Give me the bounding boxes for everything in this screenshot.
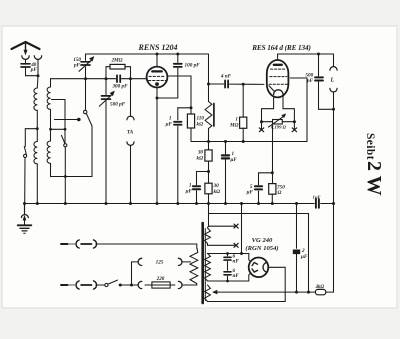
fuse 220V	[138, 281, 197, 288]
svg-text:TA: TA	[127, 130, 134, 136]
wire 30k mid	[208, 161, 210, 183]
wire TA to bus	[130, 146, 132, 204]
node speaker line	[332, 108, 335, 111]
wire anode 2	[249, 273, 251, 281]
capacitor 5uF	[255, 186, 262, 203]
svg-text:kΩ: kΩ	[197, 156, 204, 162]
terminal X left	[259, 122, 263, 132]
node elcap/141	[224, 140, 227, 143]
svg-text:(RGN 1054): (RGN 1054)	[245, 245, 278, 252]
node link	[64, 128, 67, 131]
node grid leak top	[242, 83, 245, 86]
jack TA upper	[127, 116, 134, 120]
wire coil B bottom	[51, 163, 93, 176]
wire HT line y213	[208, 204, 210, 227]
switch S2	[61, 135, 67, 203]
switch S3	[84, 110, 93, 176]
jack TA lower	[127, 142, 134, 146]
svg-text:2MΩ: 2MΩ	[110, 58, 122, 64]
wire top rail right	[278, 53, 334, 55]
svg-text:MΩ: MΩ	[229, 123, 239, 129]
wire grid-line top of coil B	[50, 79, 52, 87]
wire choke to 30k	[208, 129, 210, 150]
jack speaker upper	[330, 67, 337, 71]
coil L2a	[47, 87, 50, 109]
tube VG240 rectifier	[249, 258, 269, 278]
wire coil B mid	[50, 109, 52, 141]
filament leg left	[262, 96, 274, 122]
wire coil A mid	[36, 110, 38, 141]
svg-text:4 nF: 4 nF	[220, 74, 232, 80]
wire bus	[25, 203, 315, 205]
transformer rectifier winding	[205, 285, 286, 302]
svg-text:1μF: 1μF	[313, 195, 321, 200]
capacitor 150pF trimmer	[79, 54, 94, 79]
node bus right	[332, 202, 335, 205]
ground	[18, 204, 32, 234]
svg-text:RENS 1204: RENS 1204	[138, 43, 178, 52]
switch S1	[24, 147, 27, 204]
node jack2/antenna junction	[37, 74, 40, 77]
svg-text:μF: μF	[246, 190, 254, 196]
capacitor 500pF output	[315, 54, 333, 109]
node rail 500pF	[317, 53, 320, 56]
svg-text:RES 164 d (RE 134): RES 164 d (RE 134)	[251, 44, 311, 52]
svg-text:VG 240: VG 240	[252, 237, 273, 244]
svg-text:kΩ: kΩ	[197, 122, 204, 128]
wire tap coil B link	[51, 128, 66, 130]
svg-text:μF: μF	[185, 189, 193, 195]
resistor 30kOhm R3	[205, 150, 212, 161]
wire to 5uF	[259, 173, 273, 185]
terminal X right	[292, 122, 296, 132]
antenna	[12, 42, 40, 55]
svg-text:pF: pF	[30, 67, 38, 73]
capacitor 1uF bus series	[316, 199, 319, 208]
wire antenna to coil top	[26, 75, 39, 77]
svg-text:Seibt: Seibt	[364, 133, 376, 160]
switch mains	[105, 280, 138, 287]
node bus dots	[23, 202, 298, 205]
svg-text:nF: nF	[233, 273, 240, 279]
svg-text:pF: pF	[306, 78, 314, 84]
resistor 30kOhm R4	[205, 183, 212, 194]
wire RENS anode to rail	[156, 54, 158, 67]
wire RES grid side	[290, 78, 307, 142]
node anode rail	[156, 53, 159, 56]
transformer core	[201, 223, 204, 303]
svg-text:500 pF: 500 pF	[110, 102, 126, 108]
svg-text:100 pF: 100 pF	[185, 63, 201, 69]
wire cathode tie	[157, 97, 178, 99]
tube RES164d V2	[267, 60, 289, 97]
tap 125V	[132, 258, 191, 265]
wire to 110k node	[178, 107, 191, 109]
svg-text:220: 220	[156, 276, 165, 282]
svg-text:μF: μF	[230, 157, 238, 163]
node 4nF junction	[207, 83, 210, 86]
node cathode tie	[156, 97, 159, 100]
svg-text:μF: μF	[300, 254, 308, 260]
node fil right	[293, 120, 296, 123]
node 6nF bottom	[226, 280, 229, 283]
wire RENS screen to right	[167, 76, 191, 108]
wire grid line	[51, 78, 147, 80]
wire 30k to bus	[208, 194, 210, 204]
resistor 110kOhm	[187, 108, 194, 142]
svg-text:kΩ: kΩ	[214, 189, 221, 195]
mains line bottom	[61, 281, 105, 289]
node 6nF top	[226, 252, 229, 255]
wire line y141	[191, 141, 307, 143]
capacitor 6nF lower	[224, 272, 231, 281]
wire TA branch	[130, 79, 132, 117]
antenna jack 2	[34, 56, 41, 60]
wire jack2 down	[37, 60, 39, 76]
node HT/x308	[307, 291, 310, 294]
capacitor 2uF smoothing	[293, 204, 300, 293]
resistor 750 Ohm	[269, 184, 276, 204]
tube RENS1204 V1	[147, 67, 168, 88]
transformer HV winding	[205, 224, 239, 247]
node x241/253	[240, 252, 243, 255]
svg-text:300 pF: 300 pF	[111, 84, 128, 90]
wire anode feed x241	[241, 204, 243, 254]
capacitor 100pF	[174, 54, 182, 120]
node decoupling junction	[207, 170, 210, 173]
wire rheostat arm down	[272, 125, 274, 184]
node arm/5uF	[271, 171, 274, 174]
wire top rail left	[86, 53, 209, 55]
node voltage selector riser	[130, 284, 133, 287]
node coil B tap	[49, 128, 52, 131]
jack speaker lower	[330, 88, 337, 92]
node choke/141	[207, 140, 210, 143]
label Seibt 2 W	[363, 133, 385, 196]
rheostat 0.199 Ohm	[262, 114, 295, 127]
svg-text:nF: nF	[233, 259, 240, 265]
node grid/ant trimmer junction	[84, 77, 87, 80]
svg-text:0,199 Ω: 0,199 Ω	[271, 125, 286, 130]
wire HT output tap	[213, 290, 334, 294]
node TA junction	[129, 77, 132, 80]
svg-text:4kΩ: 4kΩ	[315, 285, 325, 290]
wire RES anode to rail	[277, 54, 279, 60]
capacitor 6nF upper	[224, 254, 231, 271]
coil L2b	[47, 141, 50, 163]
transformer filament winding	[205, 253, 249, 281]
antenna jack 1	[22, 56, 29, 60]
node fil left	[260, 120, 263, 123]
node HT/2uF	[295, 291, 298, 294]
capacitor 1uF electrolytic	[222, 142, 229, 204]
coil L1a	[34, 88, 37, 110]
wire tap coil B1	[52, 99, 66, 101]
capacitor 1uF decoupling	[193, 172, 209, 204]
node switch line crossing	[64, 175, 67, 178]
capacitor 4nF coupling	[209, 80, 264, 87]
node tap coil A	[36, 127, 39, 130]
contact stub	[55, 119, 78, 121]
wire rail corner to choke	[208, 54, 210, 102]
node 100pF rail	[176, 53, 179, 56]
coil L1b	[34, 142, 37, 164]
capacitor 300pF series	[117, 75, 120, 82]
node 1M/141	[242, 140, 245, 143]
capacitor 1uF (cathode)	[174, 122, 181, 204]
transformer T1 primary	[190, 244, 198, 285]
wire tap to switch S1	[25, 129, 37, 147]
svg-text:pF: pF	[73, 63, 81, 69]
resistor 4kOhm	[315, 289, 325, 294]
capacitor 40pF antenna	[21, 60, 30, 76]
filament leg right	[283, 96, 294, 122]
svg-text:2 W: 2 W	[363, 161, 385, 196]
resistor 2MOhm	[106, 64, 131, 78]
wire junction to coil A	[36, 76, 39, 88]
svg-text:L: L	[330, 78, 335, 84]
svg-text:Ω: Ω	[278, 190, 282, 196]
wire switch S3 branch	[85, 79, 87, 111]
wire RENS cathode down	[156, 87, 158, 203]
wire right rail down	[333, 54, 335, 67]
wire band switch column	[64, 100, 66, 144]
text labels	[138, 43, 311, 52]
wire filament to winding	[268, 267, 285, 301]
capacitor 500pF variable	[99, 79, 114, 204]
wire anode 1	[249, 254, 251, 262]
inductor choke L3	[205, 102, 214, 129]
svg-text:125: 125	[156, 259, 164, 265]
node 500pF junction	[105, 77, 108, 80]
wire coil A bottom to bus	[36, 164, 38, 204]
resistor 1MOhm grid leak	[240, 84, 247, 141]
node screen/110k	[190, 106, 193, 109]
svg-text:μF: μF	[165, 122, 173, 128]
mains line top	[61, 240, 197, 248]
